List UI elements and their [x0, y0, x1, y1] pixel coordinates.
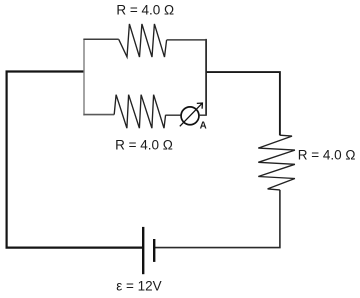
battery short plate: [153, 239, 155, 262]
ammeter arrow: [180, 104, 202, 127]
svg-text:ε = 12V: ε = 12V: [116, 279, 161, 294]
wire: output wire from parallel box to right vertical down to resistor: [206, 72, 280, 135]
node: parallel box right vertical: [205, 39, 207, 115]
battery long plate: [142, 227, 144, 274]
wire: ammeter to right vertical: [200, 114, 207, 116]
node: parallel box left vertical: [83, 39, 85, 116]
wire: right vertical below resistor and bottom-right to battery: [155, 190, 280, 248]
ammeter U1 circle: [181, 107, 199, 125]
wire: top branch right segment: [167, 39, 207, 41]
wire: bottom branch left segment: [83, 114, 114, 116]
svg-text:R = 4.0 Ω: R = 4.0 Ω: [298, 147, 356, 162]
resistor R right (vertical zigzag): [258, 135, 295, 190]
wire: left loop (feed wire, left vertical, bottom-left to battery): [7, 72, 142, 248]
wire: bottom branch to ammeter: [166, 114, 181, 116]
resistor R top (zigzag): [119, 24, 167, 57]
ammeter arrowhead: [197, 103, 203, 109]
svg-text:R = 4.0 Ω: R = 4.0 Ω: [116, 2, 174, 17]
wire: top branch left segment: [83, 38, 118, 40]
svg-text:R = 4.0 Ω: R = 4.0 Ω: [115, 137, 173, 152]
svg-text:A: A: [200, 121, 207, 132]
resistor R bottom (zigzag): [114, 95, 165, 129]
